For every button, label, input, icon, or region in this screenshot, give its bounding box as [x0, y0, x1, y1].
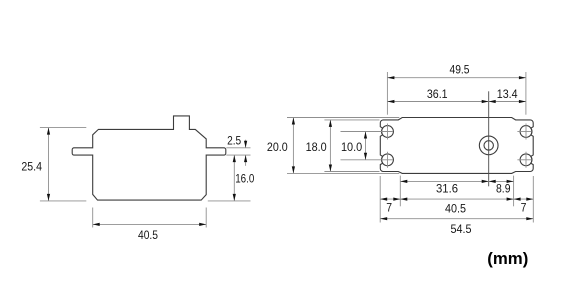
- dimension 20.0: dimension line with arrows: [292, 118, 294, 174]
- dimension 13.4: dimension line with arrows: [489, 101, 526, 103]
- dimension 18.0: dimension line with arrows: [329, 120, 331, 172]
- dimension 31.6: extension line: [399, 176, 401, 207]
- dimension 25.4: dimension line with arrows: [48, 128, 50, 201]
- svg-text:10.0: 10.0: [341, 140, 362, 154]
- dimension 2.5: outside arrows: [245, 140, 247, 148]
- svg-text:20.0: 20.0: [267, 140, 288, 154]
- output shaft: outer circle: [479, 136, 498, 155]
- dimension 49.5: extension lines: [386, 72, 388, 115]
- dimension 18.0: extension lines: [324, 119, 379, 121]
- svg-text:54.5: 54.5: [451, 222, 472, 236]
- dimension 54.5: dimension line with arrows: [380, 218, 533, 220]
- mounting hole bottom-right with center marks: [520, 154, 532, 166]
- dimension 10.0: dimension line with arrows: [365, 132, 367, 160]
- dimension 40.5 (side view): dimension line with arrows: [93, 223, 207, 225]
- svg-text:25.4: 25.4: [21, 160, 42, 174]
- dimension 49.5: dimension line with arrows: [387, 77, 526, 79]
- dimension 7 right: dimension line with arrows: [514, 198, 534, 200]
- mounting hole top-right with center marks: [520, 126, 532, 138]
- output shaft: inner circle: [484, 141, 493, 150]
- side view: servo body outline with mounting tabs and shaft boss: [72, 116, 226, 200]
- shaft vertical centerline: [488, 91, 490, 186]
- dimension 7 right: extension line: [532, 176, 534, 223]
- mounting hole top-left with center marks: [382, 126, 394, 138]
- svg-text:2.5: 2.5: [227, 133, 241, 147]
- mounting hole bottom-left with center marks: [382, 154, 394, 166]
- dimension 8.9: dimension line with arrows: [489, 180, 514, 182]
- svg-text:8.9: 8.9: [496, 181, 511, 195]
- svg-text:(mm): (mm): [487, 250, 528, 268]
- svg-text:7: 7: [386, 201, 392, 215]
- dimension 16.0: dimension line with arrows: [233, 155, 235, 201]
- dimension 40.5 (top view): dimension line with arrows: [400, 198, 513, 200]
- top view: servo case outline with mounting flanges: [380, 118, 533, 174]
- dimension 40.5 (side view): extension lines: [92, 208, 94, 228]
- dimension 7 left: extension line: [379, 176, 381, 223]
- svg-text:49.5: 49.5: [450, 63, 470, 77]
- dimension 8.9: extension line: [513, 176, 515, 207]
- svg-text:13.4: 13.4: [497, 87, 518, 101]
- dimension 25.4: extension lines: [40, 127, 86, 129]
- dimension 36.1: dimension line with arrows: [387, 101, 488, 103]
- svg-text:40.5: 40.5: [445, 201, 466, 215]
- dimension 31.6: dimension line with arrows: [400, 180, 488, 182]
- svg-text:36.1: 36.1: [427, 87, 448, 101]
- svg-text:16.0: 16.0: [235, 171, 254, 185]
- svg-text:31.6: 31.6: [436, 181, 458, 195]
- dimension 20.0: extension lines: [287, 117, 399, 119]
- dimension 7 left: dimension line with arrows: [380, 198, 400, 200]
- dimension 2.5: extension lines: [226, 147, 250, 149]
- dimension 16.0: extension line: [208, 200, 251, 202]
- svg-text:7: 7: [521, 201, 527, 215]
- svg-text:40.5: 40.5: [138, 228, 158, 242]
- svg-text:18.0: 18.0: [306, 140, 327, 154]
